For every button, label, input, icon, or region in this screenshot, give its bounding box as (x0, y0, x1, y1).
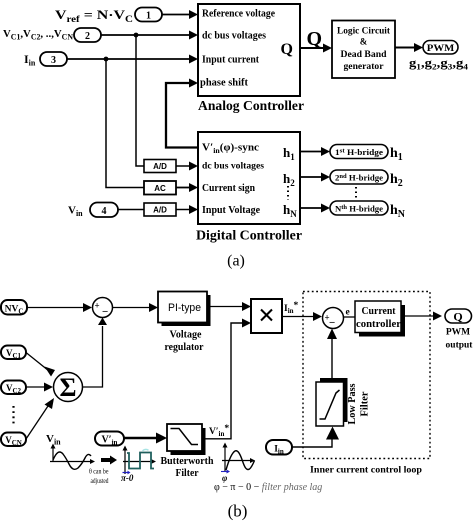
wire Vc2 to sigma (26, 383, 53, 392)
wire oval1 to analog box (162, 10, 198, 19)
label Vin with sine sketch (46, 433, 95, 469)
block Analog Controller (198, 4, 300, 96)
wire A/D 2 to digital box (176, 205, 198, 214)
svg-text:3: 3 (51, 55, 56, 66)
wire Vc1 to sigma (26, 353, 55, 377)
svg-text:Filter: Filter (176, 468, 199, 479)
svg-text:Input Voltage: Input Voltage (202, 205, 261, 216)
junction dot on Iin line (104, 57, 109, 62)
wire Vcn to sigma (26, 398, 54, 439)
svg-text:π-0: π-0 (121, 473, 134, 483)
dashed box inner current control loop (303, 292, 430, 459)
svg-text:V′in(φ)-sync: V′in(φ)-sync (202, 143, 260, 156)
output sine sketch with phi (222, 443, 255, 472)
multiplier block (251, 299, 282, 333)
summing junction 2 (323, 308, 344, 330)
svg-text:−: − (329, 317, 335, 329)
dotted line between h-bridges (355, 187, 357, 199)
wire A/D 1 to digital box (176, 162, 198, 171)
label theta can be adjusted (89, 467, 109, 486)
svg-text:generator: generator (344, 61, 384, 71)
block Digital Controller (198, 132, 300, 224)
node oval 2 (74, 28, 101, 42)
svg-text:PWM: PWM (446, 328, 470, 338)
node Nth H-bridge (330, 201, 388, 215)
node Vcn (1, 433, 26, 448)
wire multiplier to summing junction 2 (282, 312, 322, 321)
label pi-0 blue (121, 471, 134, 483)
dotted line between Vc2 and Vcn (12, 406, 14, 426)
svg-text:output: output (446, 341, 474, 351)
svg-text:Q: Q (307, 28, 323, 50)
svg-text:(b): (b) (228, 502, 248, 521)
node Vc2 (1, 381, 26, 396)
wire summing junction to PI block (113, 303, 159, 312)
svg-text:&: & (360, 37, 368, 47)
wire butterworth output up to multiplier (202, 319, 251, 439)
node oval 4 (90, 203, 118, 218)
wire current controller to Q output (405, 312, 442, 321)
wire h1 to 1st H-bridge (300, 147, 330, 156)
wire AC to digital box (176, 183, 198, 192)
label Low Pass Filter rotated (347, 383, 371, 424)
svg-text:Current sign: Current sign (202, 183, 255, 194)
wire PI output to multiplier (207, 302, 251, 311)
wire Iin junction down to AC (106, 59, 144, 188)
node V'in (95, 432, 124, 447)
label phi - pi - 0 - filter phase lag (214, 482, 322, 493)
svg-text:Q: Q (453, 310, 462, 324)
wire sigma up to summing junction 1 (83, 318, 108, 388)
svg-text:PWM: PWM (427, 44, 455, 54)
svg-text:Σ: Σ (60, 373, 77, 402)
svg-text:Filter: Filter (359, 391, 370, 417)
svg-text:A/D: A/D (153, 206, 167, 215)
svg-text:A/D: A/D (153, 162, 167, 171)
svg-text:PI-type: PI-type (168, 302, 201, 314)
node 1st H-bridge (330, 145, 388, 159)
svg-text:Butterworth: Butterworth (161, 456, 214, 467)
svg-text:Analog Controller: Analog Controller (198, 99, 304, 114)
svg-text:Reference voltage: Reference voltage (202, 9, 276, 20)
node oval 1 (135, 8, 162, 22)
svg-text:−: − (102, 306, 108, 318)
svg-text:Logic Circuit: Logic Circuit (337, 26, 390, 36)
svg-text:Dead Band: Dead Band (341, 49, 387, 59)
svg-text:Input current: Input current (202, 55, 260, 66)
svg-text:Digital Controller: Digital Controller (196, 229, 302, 244)
block AC (144, 181, 176, 195)
wire summing junction 2 to current controller (344, 316, 356, 318)
svg-text:adjusted: adjusted (91, 476, 109, 485)
node Q PWM output (445, 309, 472, 324)
svg-text:controller: controller (356, 319, 402, 330)
summing junction 1 (93, 298, 113, 319)
wire oval3 to analog box (67, 55, 198, 64)
block Logic Circuit & Dead Band generator (332, 21, 395, 79)
svg-text:dc bus voltages: dc bus voltages (202, 162, 264, 172)
block Butterworth filter (167, 424, 206, 455)
wire hN to Nth H-bridge (300, 204, 330, 213)
wire phase shift from digital controller sync (166, 79, 198, 148)
svg-text:θ can be: θ can be (89, 467, 109, 476)
wire V'in to butterworth (124, 433, 167, 444)
svg-text:4: 4 (102, 206, 107, 217)
wire h2 to 2nd H-bridge (300, 173, 330, 182)
svg-text:Current: Current (362, 306, 397, 317)
block PI-type voltage regulator (158, 292, 211, 327)
wire oval4 to A/D 2 (118, 209, 144, 211)
node PWM (423, 41, 458, 55)
node Iin (266, 440, 292, 456)
label Iin (24, 52, 36, 68)
node Vc1 (1, 346, 26, 361)
wire logic block to PWM (395, 43, 423, 52)
svg-text:regulator: regulator (165, 342, 205, 353)
wire Q output to logic block (300, 28, 332, 53)
wire oval2 to analog box (101, 31, 198, 40)
wire NVc to summing junction (27, 303, 92, 312)
svg-text:1: 1 (146, 11, 151, 22)
svg-text:φ − π − 0 − filter phase lag: φ − π − 0 − filter phase lag (214, 482, 322, 493)
sigma summing block (54, 373, 83, 403)
label phi blue (221, 470, 230, 484)
svg-text:+: + (95, 301, 100, 311)
wire Iin to LPF (292, 427, 339, 448)
svg-text:phase shift: phase shift (200, 78, 249, 89)
square wave sketch (123, 446, 157, 475)
block low pass filter (316, 378, 348, 426)
label Vc1,Vc2,..,Vcn (3, 28, 73, 42)
block A/D 2 (144, 203, 176, 216)
svg-text:(a): (a) (227, 253, 245, 270)
svg-text:dc bus voltages: dc bus voltages (202, 31, 266, 42)
thick arrow between sketches (101, 456, 117, 465)
node oval 3 (40, 52, 67, 66)
junction dot on Vc line (134, 33, 139, 38)
node NVc (1, 300, 27, 316)
svg-text:Q: Q (281, 41, 293, 58)
svg-text:e: e (346, 308, 350, 318)
label Vref = N·Vc (55, 7, 133, 24)
svg-text:2: 2 (85, 31, 90, 42)
svg-text:Low Pass: Low Pass (347, 383, 358, 424)
svg-text:Inner current control loop: Inner current control loop (310, 466, 422, 476)
svg-text:Voltage: Voltage (170, 330, 203, 341)
svg-text:AC: AC (154, 184, 166, 193)
block A/D 1 (144, 160, 176, 173)
block current controller (355, 301, 405, 337)
wire Vc junction down to A/D 1 (136, 35, 144, 166)
node 2nd H-bridge (330, 170, 388, 184)
wire LPF up to summing junction 2 (327, 329, 337, 383)
